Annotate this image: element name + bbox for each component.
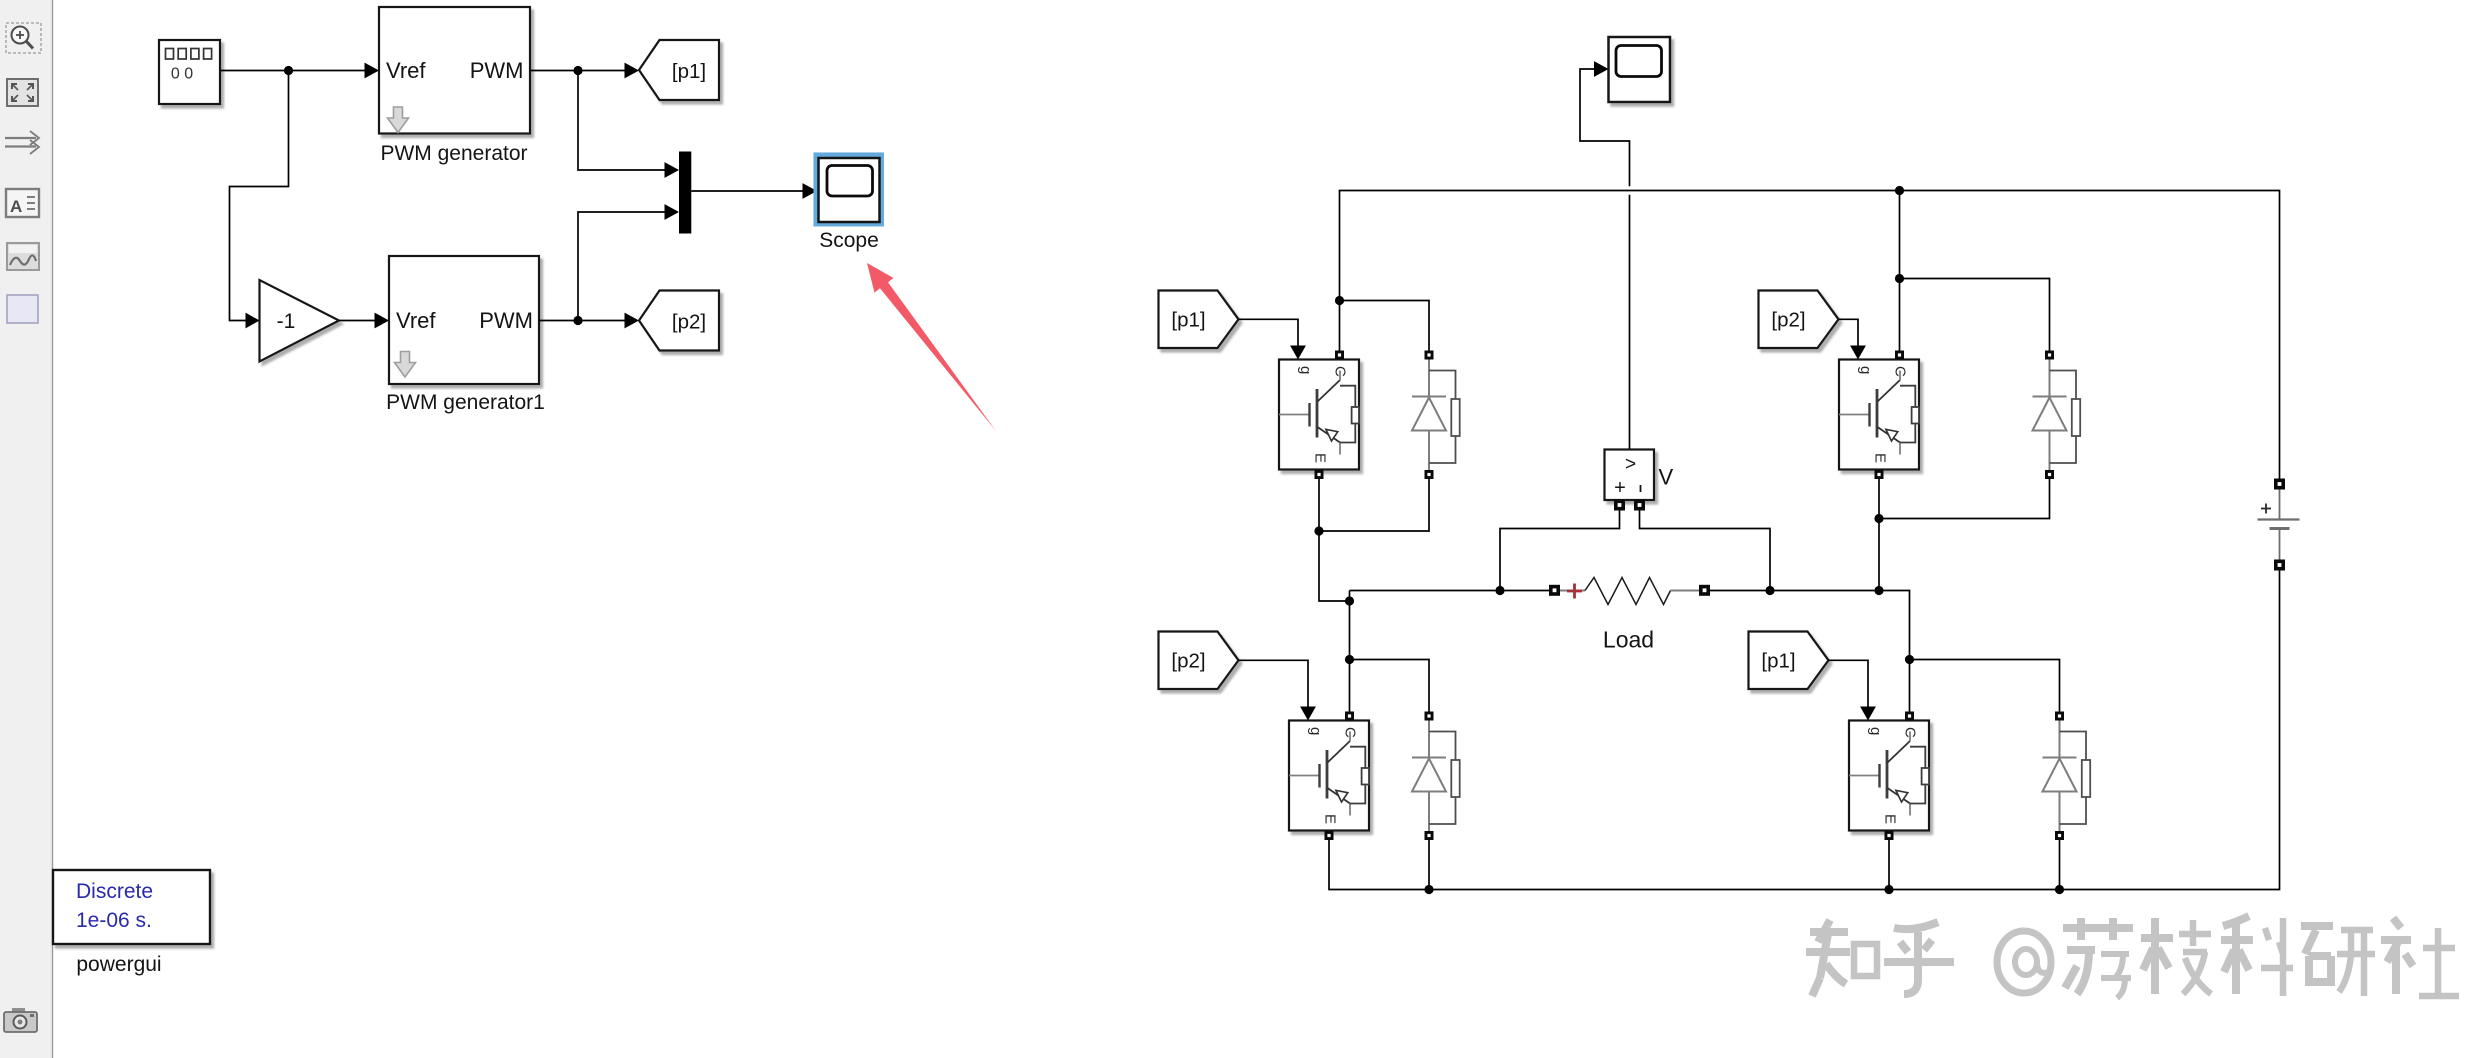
goto tag [p2]: [639, 291, 719, 351]
V block ports: [1614, 500, 1625, 511]
wire: load line right: [1710, 591, 1910, 712]
svg-text:0 0: 0 0: [171, 66, 193, 83]
svg-text:[p1]: [p1]: [672, 60, 706, 83]
junction dot bus-top: [1895, 186, 1904, 195]
svg-text:Scope: Scope: [819, 229, 879, 252]
wire: left leg down to IGBT3 collector: [1349, 601, 1351, 712]
toolbar icon: camera snapshot: [4, 1008, 37, 1032]
svg-text:Load: Load: [1603, 627, 1654, 653]
scope block (selected): [816, 155, 882, 252]
watermark char 乎: [1884, 922, 1954, 994]
wire: left leg to load line: [1349, 591, 1351, 602]
wire: [p2] to IGBT3 gate: [1239, 660, 1309, 707]
wire: PWM1 out to goto p2: [539, 320, 625, 322]
svg-text:A: A: [10, 197, 22, 216]
wire: gain to Vref1: [339, 320, 375, 322]
svg-text:powergui: powergui: [76, 953, 161, 976]
from tag [p1] lower-right: [1749, 632, 1829, 690]
svg-text:1e-06 s.: 1e-06 s.: [76, 909, 152, 932]
D2 ports: [2045, 351, 2054, 360]
wire: branch to diode D3 top: [1350, 660, 1430, 712]
junction dot TR-E: [1874, 514, 1883, 523]
toolbar icon: blank lavender swatch: [7, 295, 38, 323]
watermark @: [1997, 931, 2051, 993]
wire: PWM out to goto p1: [530, 70, 625, 72]
goto tag [p1]: [639, 40, 719, 100]
wire: V- lead: [1640, 510, 1771, 591]
from tag [p1] upper-left: [1159, 291, 1239, 349]
annotation: red arrow pointing at scope: [867, 263, 996, 431]
wire: IGBT2 emitter chain: [1878, 479, 1880, 591]
toolbar icon: annotation A: [6, 189, 39, 217]
wire: bottom return bus: [1329, 570, 2280, 890]
svg-text:+: +: [1614, 477, 1626, 499]
from tag [p2] lower-left: [1159, 632, 1239, 690]
gain block -1: [260, 280, 340, 362]
svg-text:[p2]: [p2]: [672, 310, 706, 333]
svg-text:Discrete: Discrete: [76, 880, 153, 903]
wire: [p2] to IGBT2 gate: [1839, 319, 1859, 346]
junction dot B: [573, 66, 582, 75]
wire: [p1] to IGBT1 gate: [1239, 319, 1299, 346]
wire: top DC bus: [1340, 191, 2280, 480]
wire: node B down to mux input 1: [578, 71, 665, 171]
wire: bus drop to IGBT1 collector: [1339, 301, 1341, 351]
diode D1 (upper-left): [1412, 360, 1460, 471]
wire: source to Vref: [220, 70, 365, 72]
junction dot TL-C: [1335, 296, 1344, 305]
wire: node C up to mux input 2: [578, 212, 665, 321]
from tag [p2] upper-right: [1759, 291, 1839, 349]
wire: IGBT4 emitter drop: [1888, 840, 1890, 890]
junction dot BR-E-bus: [1884, 885, 1893, 894]
load ports: [1549, 585, 1560, 596]
toolbar icon: signal routing arrows: [5, 131, 39, 154]
IGBT4 ports: [1905, 712, 1914, 721]
watermark char 知: [1806, 920, 1877, 996]
junction dot left-leg: [1345, 596, 1354, 605]
diode D4 (lower-right): [2043, 721, 2091, 832]
D4 ports: [2055, 712, 2064, 721]
PWM generator1 block: [386, 256, 545, 414]
toolbar icon: zoom-to-region magnifier: [6, 23, 41, 53]
junction dot A: [284, 66, 293, 75]
D3 ports: [1425, 712, 1434, 721]
svg-text:V: V: [1659, 465, 1674, 490]
svg-text:>: >: [1625, 454, 1636, 475]
wire: branch from node A down to gain input: [230, 71, 289, 321]
PWM generator block: [379, 7, 530, 165]
IGBT1 block (upper-left): [1279, 360, 1359, 470]
IGBT2 block (upper-right): [1839, 360, 1919, 470]
junction dot TR-C: [1895, 274, 1904, 283]
IGBT3 ports: [1345, 712, 1354, 721]
wire: branch to diode D1 top: [1340, 301, 1430, 351]
wire: load line left: [1350, 590, 1551, 592]
DC voltage source battery: [2258, 489, 2300, 560]
svg-text:[p2]: [p2]: [1771, 309, 1805, 332]
svg-text:PWM: PWM: [479, 308, 533, 333]
svg-text:Vref: Vref: [396, 308, 436, 333]
watermark char 枝: [2141, 918, 2211, 994]
wire: branch to diode D4 top: [1910, 660, 2060, 712]
wire: D4 bottom drop: [2059, 840, 2061, 890]
watermark char 研: [2301, 926, 2375, 996]
watermark char 社: [2381, 918, 2459, 996]
battery ports: [2274, 479, 2285, 490]
svg-text:PWM generator: PWM generator: [380, 142, 527, 165]
junction dot TR-E-leg: [1874, 586, 1883, 595]
junction dot D3-bus: [1424, 885, 1433, 894]
mux block: [679, 152, 691, 234]
junction dot BR-C: [1905, 655, 1914, 664]
IGBT4 block (lower-right): [1849, 721, 1929, 831]
wire: V+ lead: [1500, 510, 1620, 591]
wire: TL-E to D1 bottom: [1319, 479, 1429, 531]
svg-text:PWM generator1: PWM generator1: [386, 391, 545, 414]
powergui block: [53, 870, 210, 976]
toolbar icon: fit-to-view: [7, 79, 38, 106]
watermark char 荔: [2063, 918, 2133, 998]
wire: D3 bottom drop: [1428, 840, 1430, 890]
signal builder source block: [159, 40, 220, 104]
IGBT1 ports: [1335, 351, 1344, 360]
svg-text:PWM: PWM: [470, 58, 524, 83]
watermark 知乎 @荔枝科研社: [1806, 916, 2459, 998]
IGBT3 block (lower-left): [1289, 721, 1369, 831]
junction dot D4-bus: [2055, 885, 2064, 894]
toolbar icon: image/plot: [7, 243, 39, 270]
junction dot BL-C: [1345, 655, 1354, 664]
scope2 block (right circuit): [1609, 37, 1671, 102]
svg-text:[p1]: [p1]: [1171, 309, 1205, 332]
diode D3 (lower-left): [1412, 721, 1460, 832]
toolbar panel: [0, 0, 53, 1058]
wire: IGBT1 emitter chain: [1319, 479, 1350, 601]
diode D2 (upper-right): [2033, 360, 2081, 471]
load resistor: [1560, 578, 1700, 653]
D1 ports: [1425, 351, 1434, 360]
wire: bus drop to IGBT2 collector: [1899, 191, 1901, 351]
wire: TR-E to D2 bottom: [1879, 479, 2050, 519]
junction dot load-left: [1495, 586, 1504, 595]
IGBT2 ports: [1895, 351, 1904, 360]
voltage measurement block V: [1605, 450, 1674, 501]
wire: V measurement to scope2 (with hop gap at bus): [1580, 69, 1630, 186]
svg-text:[p2]: [p2]: [1171, 650, 1205, 673]
junction dot C: [573, 316, 582, 325]
watermark char 科: [2221, 916, 2293, 996]
svg-text:Vref: Vref: [386, 58, 426, 83]
wire: mux to scope: [691, 190, 803, 192]
svg-text:[p1]: [p1]: [1761, 650, 1795, 673]
junction dot load-right: [1765, 586, 1774, 595]
wire: [p1] to IGBT4 gate: [1829, 660, 1869, 707]
svg-text:-1: -1: [277, 310, 296, 333]
wire: branch to diode D2 top: [1900, 279, 2050, 351]
junction dot TL-E: [1314, 526, 1323, 535]
